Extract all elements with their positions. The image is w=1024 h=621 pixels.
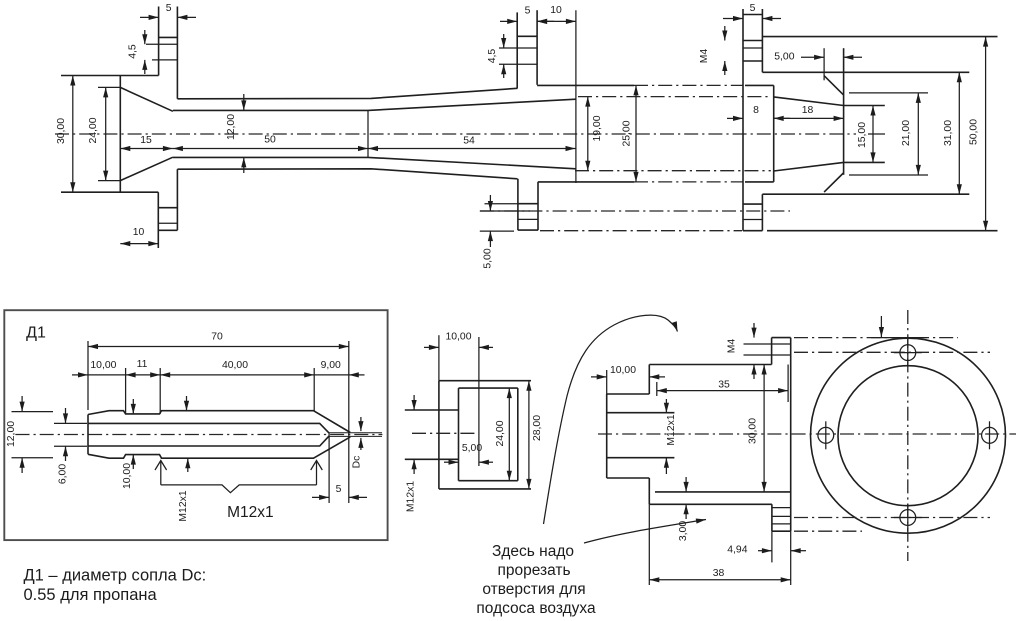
dim 15,00	[857, 106, 873, 163]
svg-text:M4: M4	[699, 49, 710, 64]
svg-text:24,00: 24,00	[495, 420, 506, 446]
dim 70	[88, 332, 349, 504]
svg-text:30,00: 30,00	[56, 118, 67, 144]
svg-text:5,00: 5,00	[462, 443, 482, 454]
holder centerline	[412, 432, 475, 434]
flange inner circle	[838, 366, 978, 506]
svg-text:10: 10	[550, 5, 562, 16]
svg-text:10,00: 10,00	[610, 365, 636, 376]
svg-text:отверстия для: отверстия для	[482, 581, 585, 598]
venturi throat bore	[173, 110, 368, 157]
holder bore	[459, 388, 518, 481]
dim 35 chamber	[657, 365, 788, 403]
dim 6,00	[54, 408, 87, 484]
main centerline	[55, 133, 856, 135]
nozzle centerline	[16, 434, 383, 436]
top bolt hole axis	[794, 351, 990, 353]
chamber body	[649, 338, 790, 532]
svg-text:10: 10	[133, 227, 145, 238]
bolt hole bottom	[894, 504, 922, 532]
dim 12,00 nozzle	[6, 396, 53, 473]
dim 4,5 top-left	[128, 30, 145, 74]
dim 3,00 chamber	[678, 477, 689, 541]
big tube dia 50 outline	[762, 37, 997, 231]
svg-text:5: 5	[336, 484, 342, 495]
bolt hole left	[818, 421, 834, 449]
svg-text:31,00: 31,00	[943, 120, 954, 146]
svg-text:50: 50	[264, 135, 276, 146]
svg-text:Здесь надо: Здесь надо	[492, 543, 574, 560]
detail frame box	[4, 310, 387, 540]
lower curved leader arrow	[584, 520, 706, 544]
dim 50	[173, 111, 368, 158]
dim 21,00	[901, 93, 918, 175]
svg-text:24,00: 24,00	[88, 117, 99, 143]
svg-text:10,00: 10,00	[122, 463, 133, 489]
tube dia 31 lines	[762, 72, 969, 194]
dim 19,00	[588, 97, 603, 171]
big curved leader arrow	[544, 315, 678, 524]
svg-text:8: 8	[753, 105, 759, 116]
svg-text:12,00: 12,00	[6, 421, 17, 447]
svg-text:12,00: 12,00	[226, 114, 237, 140]
chamber centerline (shared with flange)	[598, 433, 1016, 435]
flange outer circle	[811, 338, 1006, 533]
nozzle orifice channel	[329, 433, 382, 437]
dim 10 bottom-left	[120, 227, 158, 244]
holder thread lines	[405, 410, 459, 459]
outer cone chamfer	[824, 76, 843, 192]
svg-text:9,00: 9,00	[321, 360, 341, 371]
svg-text:0.55 для пропана: 0.55 для пропана	[24, 586, 158, 604]
holder outline	[439, 381, 531, 489]
svg-text:40,00: 40,00	[222, 360, 248, 371]
svg-text:4,94: 4,94	[727, 545, 747, 556]
thread callout M12x1 chamber	[666, 399, 677, 474]
svg-text:5: 5	[166, 3, 172, 14]
dim 38 chamber	[649, 504, 790, 585]
svg-text:15: 15	[140, 135, 152, 146]
svg-text:10,00: 10,00	[90, 360, 116, 371]
holder thread callout M12x1	[406, 395, 417, 512]
chamber bottom lug	[772, 504, 791, 531]
dash line flange bottom edge	[540, 230, 742, 232]
bottom bolt hole axis	[794, 517, 990, 519]
svg-text:М12х1: М12х1	[227, 504, 274, 521]
nozzle body	[88, 411, 350, 459]
bell mouth inner cone	[120, 87, 173, 180]
dim 10,00 groove dia	[122, 399, 133, 489]
svg-text:28,00: 28,00	[532, 415, 543, 441]
dim 30,00 chamber	[748, 365, 765, 492]
flange top tangent dash line	[794, 337, 958, 339]
dim Dc	[352, 417, 363, 468]
svg-text:5: 5	[750, 3, 756, 14]
svg-text:6,00: 6,00	[58, 464, 69, 484]
bolt hole section right flange top	[743, 41, 762, 62]
hidden bore dia 19 centre-dash lines	[575, 97, 771, 171]
M4 callout chamber	[727, 323, 755, 379]
bolt hole section, left flange bottom	[158, 169, 177, 248]
svg-text:5: 5	[525, 6, 531, 17]
mixer pipe dia 25	[537, 85, 774, 181]
venturi tube outer wall	[177, 88, 517, 179]
svg-text:38: 38	[713, 568, 725, 579]
small arrow above flange	[880, 316, 882, 337]
dim M4	[699, 26, 725, 75]
svg-text:18: 18	[802, 105, 814, 116]
dim 25,00	[622, 85, 637, 181]
nozzle bore	[88, 423, 329, 446]
svg-text:21,00: 21,00	[901, 120, 912, 146]
dim 10,00 chamber	[591, 365, 665, 394]
svg-text:М12х1: М12х1	[178, 490, 189, 521]
dim 10,00 holder	[424, 332, 493, 467]
bolt hole right	[982, 421, 998, 449]
dim 5 right flange	[723, 3, 781, 19]
left flange plate	[61, 76, 159, 193]
svg-text:30,00: 30,00	[748, 418, 759, 444]
svg-text:54: 54	[463, 136, 475, 147]
right flange plate	[743, 9, 762, 231]
svg-text:подсоса воздуха: подсоса воздуха	[476, 600, 596, 617]
svg-text:10,00: 10,00	[445, 332, 471, 343]
dim 5 top-left	[140, 3, 196, 17]
dim 5,00 right	[774, 48, 862, 80]
svg-text:70: 70	[211, 332, 223, 343]
dim 24,00	[88, 87, 120, 180]
thread callout M12x1 small	[178, 396, 189, 522]
dim 5,00 mid bottom callout	[483, 195, 494, 269]
svg-text:25,00: 25,00	[622, 120, 633, 146]
dim 8 and 18	[727, 105, 844, 118]
dim 50,00	[969, 37, 986, 231]
flange vertical centerline	[907, 310, 909, 561]
dim 4,94 chamber	[727, 531, 806, 562]
svg-text:15,00: 15,00	[857, 122, 868, 148]
outlet stub dia 15	[844, 106, 885, 163]
dim 10 mid flange	[537, 5, 576, 183]
svg-text:Dс: Dс	[352, 456, 363, 469]
note text	[476, 543, 596, 617]
svg-text:35: 35	[718, 380, 730, 391]
svg-text:19,00: 19,00	[592, 115, 603, 141]
dim 5 mid flange	[500, 6, 554, 22]
svg-text:50,00: 50,00	[969, 119, 980, 145]
svg-text:5,00: 5,00	[483, 248, 494, 268]
diffuser bore cone	[368, 99, 576, 169]
dia 21 extension lines	[849, 93, 928, 175]
dim 5 nozzle tip	[312, 433, 367, 503]
dim 11	[126, 359, 161, 414]
mid flange bolt hole section top	[499, 10, 537, 88]
bolt hole axis dash line	[480, 210, 790, 212]
svg-text:прорезать: прорезать	[497, 562, 570, 579]
svg-text:5,00: 5,00	[774, 52, 794, 63]
chamber top lug with M4 hole	[744, 338, 791, 365]
bolt hole top	[894, 339, 922, 367]
inner outlet cone	[774, 97, 844, 171]
svg-text:4,5: 4,5	[487, 49, 498, 64]
dim 28,00 holder	[529, 381, 543, 489]
dim 30,00	[56, 76, 73, 193]
bolt hole section, left flange top	[146, 7, 177, 99]
dim 4,5 mid flange	[487, 34, 504, 78]
dim 24,00 holder	[495, 388, 509, 481]
bolt hole section right flange bottom	[743, 204, 762, 231]
svg-text:M12x1: M12x1	[406, 481, 417, 512]
dim 9,00	[314, 360, 364, 375]
chamber thread bore lines	[607, 413, 675, 458]
dim 54	[368, 136, 576, 149]
svg-text:11: 11	[137, 359, 148, 370]
svg-text:M4: M4	[727, 339, 738, 354]
svg-text:М12х1: М12х1	[666, 414, 677, 445]
flange bottom tangent dash line	[794, 530, 862, 532]
dim 40,00	[160, 360, 314, 411]
svg-text:Д1 – диаметр сопла Dс:: Д1 – диаметр сопла Dс:	[24, 567, 207, 585]
dim 12,00	[226, 94, 244, 173]
dim 5,00 holder	[444, 443, 493, 462]
chamber threaded stub	[607, 394, 650, 478]
dim 10,00 nozzle	[72, 360, 126, 414]
svg-text:Д1: Д1	[26, 325, 46, 342]
svg-text:4,5: 4,5	[128, 44, 139, 59]
mid flange bolt hole section bottom	[480, 179, 538, 231]
dim 15	[120, 135, 173, 148]
pipe hub end face	[773, 85, 775, 181]
right end face	[843, 48, 845, 175]
thread zone bracket M12x1	[155, 461, 322, 522]
dim 31,00	[943, 72, 959, 194]
